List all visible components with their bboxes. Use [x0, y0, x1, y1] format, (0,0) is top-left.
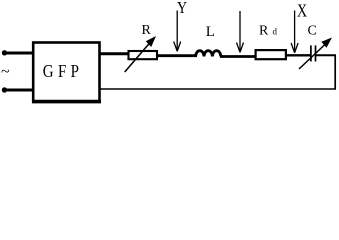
wire bottom terminal to GFP box — [5, 89, 34, 92]
wire R to inductor L — [156, 54, 197, 57]
svg-text:C: C — [308, 24, 317, 39]
resistor Rd body — [256, 50, 286, 59]
wire right vertical drop — [334, 55, 336, 90]
wire L to resistor Rd — [220, 55, 256, 58]
svg-text:X: X — [297, 2, 308, 21]
wire GFP box to resistor R — [100, 52, 129, 55]
GFP box thick bottom edge — [32, 100, 101, 104]
svg-text:R: R — [259, 24, 269, 39]
wire bottom bus — [100, 88, 336, 90]
capacitor C plate 1 — [310, 45, 312, 61]
wire C to right corner — [316, 54, 337, 56]
node X arrow — [294, 11, 296, 53]
svg-text:G F P: G F P — [43, 61, 79, 82]
svg-text:R: R — [142, 23, 152, 38]
svg-text:Y: Y — [177, 0, 187, 17]
node Y arrow — [176, 11, 178, 51]
svg-text:~: ~ — [1, 64, 10, 81]
inductor L coil — [196, 51, 221, 57]
svg-text:d: d — [273, 27, 278, 37]
terminal dot top-left — [2, 50, 7, 55]
capacitor C arrow (variable) — [299, 44, 326, 69]
wire Rd to capacitor C — [286, 54, 311, 56]
terminal dot bottom-left — [2, 87, 7, 92]
resistor R body — [129, 51, 158, 59]
svg-text:L: L — [206, 24, 215, 40]
wire top terminal to GFP box — [5, 52, 34, 55]
GFP box U1 — [33, 43, 99, 102]
capacitor C plate 2 — [315, 45, 317, 61]
resistor R arrow (variable) — [125, 42, 151, 72]
junction arrow before Rd — [239, 11, 241, 52]
